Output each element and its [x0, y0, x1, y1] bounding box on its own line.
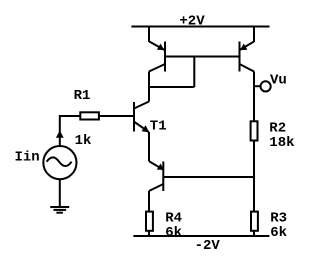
- svg-text:R1: R1: [74, 88, 91, 104]
- current source Iin: [43, 146, 76, 179]
- svg-text:+2V: +2V: [179, 13, 205, 29]
- wire: R1 corner down to source: [59, 115, 61, 146]
- resistor R3 6k: [251, 212, 258, 236]
- transistor Q1 (left PNP of mirror): [149, 42, 165, 72]
- svg-text:6k: 6k: [270, 225, 287, 241]
- wire: Q3 base to R2/R3 junction: [163, 176, 254, 178]
- wire: Q1 collector down to T1 collector: [148, 72, 150, 102]
- +2V power rail: [131, 26, 269, 28]
- ground: [50, 207, 69, 213]
- wire: mirror diode connection horizontal: [149, 86, 194, 88]
- wire: Q2 collector down to R2: [253, 72, 255, 122]
- wire: rail to Q1 emitter: [148, 27, 150, 43]
- svg-text:Iin: Iin: [15, 150, 40, 166]
- svg-text:-2V: -2V: [195, 238, 221, 254]
- wire: mirror diode connection vertical: [193, 57, 195, 88]
- wire: R2 bottom to R3 top: [253, 141, 255, 212]
- svg-text:18k: 18k: [269, 135, 294, 151]
- current direction arrow: [56, 131, 64, 138]
- -2V power rail: [133, 235, 269, 237]
- resistor R4 6k: [146, 212, 153, 236]
- wire: base link between Q1 and Q2: [165, 56, 240, 58]
- svg-text:1k: 1k: [75, 133, 92, 149]
- transistor Q3 (bottom PNP): [149, 161, 164, 191]
- resistor R2 18k: [251, 121, 258, 140]
- wire: rail to Q2 emitter: [253, 27, 255, 43]
- wire: T1 emitter down to Q3 emitter: [148, 132, 150, 162]
- Vu output terminal: [254, 81, 271, 91]
- svg-text:R2: R2: [269, 120, 286, 136]
- svg-text:6k: 6k: [165, 225, 182, 241]
- svg-text:T1: T1: [150, 118, 167, 134]
- wire: Q3 collector down to R4: [148, 191, 150, 212]
- resistor R1 1k: [60, 112, 133, 119]
- transistor Q2 (right PNP of mirror): [240, 42, 255, 72]
- transistor T1 (NPN): [134, 102, 149, 133]
- wire: source to ground: [59, 179, 61, 207]
- svg-text:Vu: Vu: [270, 73, 287, 89]
